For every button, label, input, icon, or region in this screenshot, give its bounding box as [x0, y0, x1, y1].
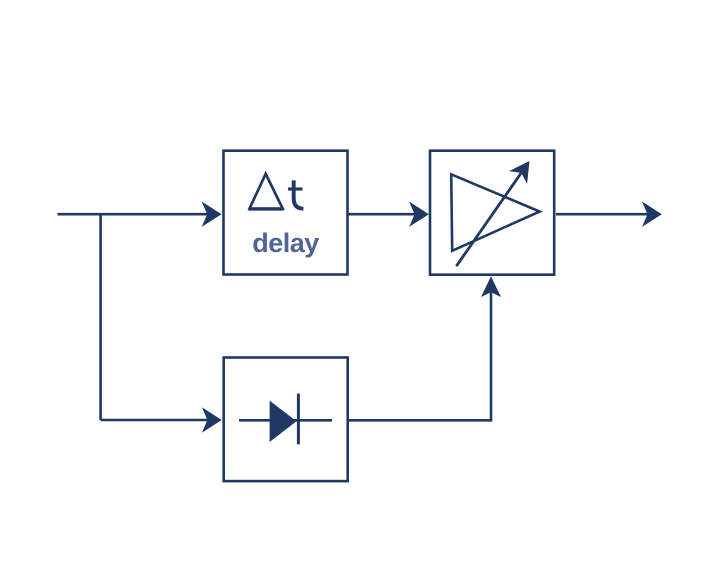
wire branch vertical	[99, 214, 102, 420]
amplifier triangle symbol	[451, 174, 539, 251]
label t crossbar	[288, 187, 303, 190]
label delta triangle glyph	[250, 174, 283, 209]
variable-gain arrowhead	[509, 161, 530, 184]
wire delay to amp	[349, 213, 416, 216]
delay block U1 box	[224, 151, 348, 275]
wire feedback vertical up	[490, 293, 493, 422]
arrowhead into amp box	[409, 202, 429, 227]
wire amp output	[556, 213, 648, 216]
arrowhead output	[642, 202, 662, 227]
diode anode triangle	[270, 401, 297, 442]
label delta base bar	[249, 207, 284, 210]
wire diode output horizontal	[349, 419, 491, 422]
arrowhead into delay box	[202, 202, 222, 227]
label t stem and hook	[294, 180, 304, 208]
diode block U3 box	[224, 358, 348, 482]
amplifier block U2 box	[430, 151, 554, 275]
svg-text:delay: delay	[252, 228, 319, 258]
diode symbol horizontal lead	[239, 419, 332, 422]
wire input horizontal	[58, 213, 209, 216]
wire branch bottom horizontal	[101, 419, 208, 422]
arrowhead into diode box	[202, 407, 222, 432]
diode cathode bar	[297, 394, 300, 445]
arrowhead up into amp bottom	[481, 276, 501, 297]
variable-gain arrow shaft	[456, 173, 521, 266]
